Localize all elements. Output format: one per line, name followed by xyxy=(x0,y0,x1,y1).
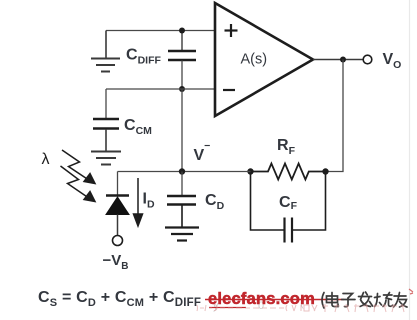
capacitor CF xyxy=(251,172,326,243)
ground (below CCM) xyxy=(91,152,121,165)
capacitor CD xyxy=(167,172,225,228)
light arrow 2 xyxy=(61,166,96,202)
node RF right dot xyxy=(322,168,328,174)
watermark red tick far right xyxy=(409,289,413,294)
hanzi zi xyxy=(342,294,356,307)
photodiode D1 xyxy=(106,172,129,246)
wire noninverting input xyxy=(106,30,215,32)
ground (below CD) xyxy=(165,228,199,241)
capacitor CCM xyxy=(93,89,152,151)
ground (top left, on + input) xyxy=(91,31,120,72)
svg-text:λ: λ xyxy=(42,151,50,168)
wire feedback from output down xyxy=(326,60,344,172)
wire op-amp output xyxy=(313,59,363,61)
watermark chinese (电子发烧友) drawn strokes xyxy=(322,292,407,308)
node junction dot at + rail xyxy=(179,28,185,34)
svg-text:A(s): A(s) xyxy=(241,52,268,68)
watermark faint red second row xyxy=(197,304,405,312)
hanzi shao xyxy=(375,293,393,307)
node output junction dot xyxy=(340,57,346,63)
wire V- node horizontal xyxy=(118,171,251,173)
( paren xyxy=(322,293,324,309)
hanzi fa xyxy=(359,292,373,307)
node RF left dot xyxy=(247,168,253,174)
node V- junction dot xyxy=(179,168,185,174)
border line right edge xyxy=(409,0,411,320)
hanzi dian xyxy=(327,293,339,307)
op-amp A(s) xyxy=(215,3,313,116)
capacitor CDIFF xyxy=(126,31,196,90)
node junction dot at - rail xyxy=(179,86,185,92)
hanzi you xyxy=(394,293,408,308)
light arrow 1 xyxy=(62,150,95,184)
current arrow ID xyxy=(134,178,143,226)
watermark elecfans.com xyxy=(205,290,344,308)
wire inverting input xyxy=(106,88,215,90)
watermark faint gray remnants under red text xyxy=(213,297,304,312)
resistor RF xyxy=(251,137,326,180)
terminal VO open circle xyxy=(363,55,372,64)
wire inverting rail down to V- node xyxy=(181,89,183,172)
